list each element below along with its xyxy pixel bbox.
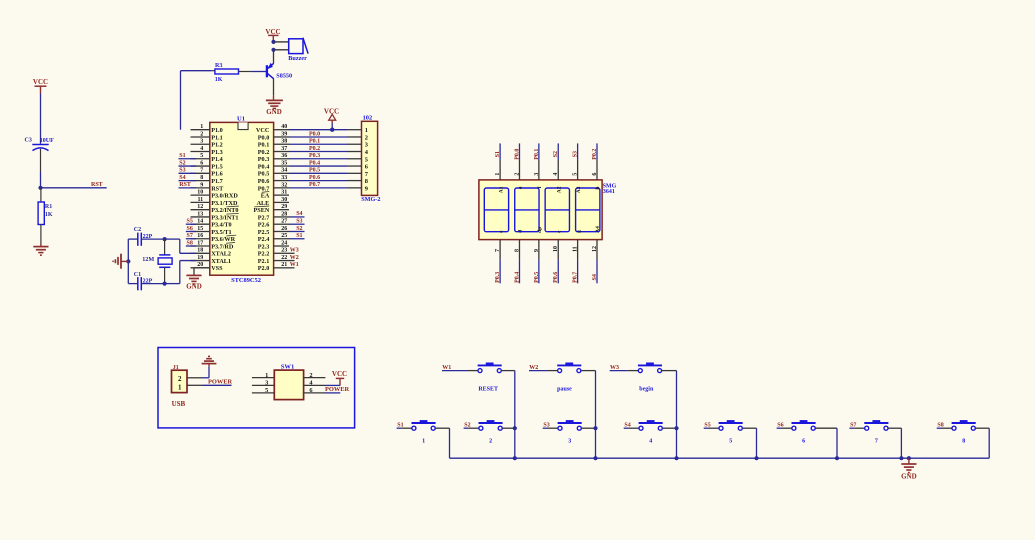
svg-text:2: 2 <box>178 375 182 383</box>
svg-text:3641: 3641 <box>603 189 615 195</box>
svg-text:37: 37 <box>281 146 287 152</box>
svg-text:1K: 1K <box>215 77 223 83</box>
svg-text:27: 27 <box>281 219 287 225</box>
svg-text:XTAL1: XTAL1 <box>211 258 231 265</box>
svg-text:102: 102 <box>363 115 373 122</box>
svg-text:RST: RST <box>211 185 224 192</box>
svg-text:a: a <box>518 186 524 189</box>
svg-text:W1: W1 <box>442 365 451 371</box>
svg-text:P2.1: P2.1 <box>258 258 270 265</box>
svg-text:S4: S4 <box>179 175 185 181</box>
svg-text:P0.1: P0.1 <box>534 149 540 160</box>
svg-text:C1: C1 <box>134 272 141 278</box>
svg-text:29: 29 <box>281 204 287 210</box>
svg-text:PSEN: PSEN <box>253 207 269 214</box>
svg-text:P0.4: P0.4 <box>258 163 270 170</box>
svg-text:34: 34 <box>281 168 287 174</box>
svg-text:SW1: SW1 <box>281 363 295 370</box>
svg-text:S1: S1 <box>397 423 403 429</box>
svg-text:6: 6 <box>592 173 598 176</box>
svg-text:S1: S1 <box>296 233 302 239</box>
svg-text:S7: S7 <box>187 233 193 239</box>
svg-text:S2: S2 <box>179 160 185 166</box>
svg-text:P2.7: P2.7 <box>258 214 270 221</box>
svg-text:SMG-2: SMG-2 <box>361 196 380 203</box>
svg-text:P0.6: P0.6 <box>309 175 320 181</box>
svg-text:P0.0: P0.0 <box>309 131 320 137</box>
svg-text:VCC: VCC <box>33 78 48 86</box>
svg-text:P0.1: P0.1 <box>309 139 320 145</box>
svg-text:P0.0: P0.0 <box>514 149 520 160</box>
svg-text:P0.5: P0.5 <box>534 272 540 283</box>
svg-text:VCC: VCC <box>324 107 339 115</box>
svg-text:ALE: ALE <box>257 200 270 207</box>
svg-text:8: 8 <box>200 175 203 181</box>
svg-text:1: 1 <box>200 124 203 130</box>
svg-text:P3.1/TXD: P3.1/TXD <box>211 200 238 207</box>
svg-text:VCC: VCC <box>332 370 347 378</box>
svg-text:U1: U1 <box>237 115 245 122</box>
svg-text:P0.1: P0.1 <box>258 142 270 149</box>
svg-text:38: 38 <box>281 139 287 145</box>
svg-text:16: 16 <box>197 233 203 239</box>
svg-text:P1.4: P1.4 <box>211 156 223 163</box>
svg-text:P0.6: P0.6 <box>258 178 270 185</box>
svg-text:9: 9 <box>365 185 368 192</box>
svg-text:P0.7: P0.7 <box>258 185 270 192</box>
svg-text:4: 4 <box>649 438 652 444</box>
svg-text:3: 3 <box>200 139 203 145</box>
svg-text:39: 39 <box>281 131 287 137</box>
svg-text:S4: S4 <box>296 211 302 217</box>
svg-text:22P: 22P <box>143 234 153 240</box>
svg-text:17: 17 <box>197 240 203 246</box>
svg-text:d: d <box>518 230 524 233</box>
svg-text:P1.2: P1.2 <box>211 142 223 149</box>
svg-text:P1.5: P1.5 <box>211 163 223 170</box>
svg-text:VSS: VSS <box>211 265 223 272</box>
svg-text:R1: R1 <box>45 204 52 210</box>
svg-text:1K: 1K <box>45 212 53 218</box>
svg-text:2: 2 <box>514 173 520 176</box>
svg-text:P0.4: P0.4 <box>514 272 520 283</box>
svg-text:S2: S2 <box>464 423 470 429</box>
svg-text:P2.5: P2.5 <box>258 229 270 236</box>
svg-text:11: 11 <box>198 197 204 203</box>
svg-text:10: 10 <box>197 190 203 196</box>
svg-text:5: 5 <box>365 156 368 163</box>
svg-text:32: 32 <box>281 182 287 188</box>
svg-text:7: 7 <box>875 438 878 444</box>
svg-text:S6: S6 <box>187 226 193 232</box>
svg-text:STC89C52: STC89C52 <box>231 277 261 284</box>
svg-text:dp: dp <box>537 227 543 233</box>
svg-text:1: 1 <box>422 438 425 444</box>
svg-text:P3.0/RXD: P3.0/RXD <box>211 193 238 200</box>
svg-text:POWER: POWER <box>208 378 233 385</box>
svg-text:S4: S4 <box>624 423 630 429</box>
svg-text:8: 8 <box>962 438 965 444</box>
svg-text:19: 19 <box>197 255 203 261</box>
svg-text:33: 33 <box>281 175 287 181</box>
svg-text:P0.3: P0.3 <box>309 153 320 159</box>
svg-text:S7: S7 <box>850 423 856 429</box>
svg-text:A3: A3 <box>576 186 582 193</box>
svg-text:EA: EA <box>261 193 270 200</box>
svg-text:VCC: VCC <box>256 127 269 134</box>
svg-text:28: 28 <box>281 211 287 217</box>
svg-text:S8550: S8550 <box>276 73 292 80</box>
svg-text:1: 1 <box>495 173 501 176</box>
svg-text:4: 4 <box>553 173 559 176</box>
svg-text:12: 12 <box>197 204 203 210</box>
svg-text:S1: S1 <box>495 151 501 157</box>
svg-text:P1.3: P1.3 <box>211 149 223 156</box>
svg-text:8: 8 <box>514 249 520 252</box>
svg-text:9: 9 <box>200 182 203 188</box>
svg-text:W3: W3 <box>610 365 619 371</box>
svg-text:3: 3 <box>365 142 368 149</box>
svg-text:2: 2 <box>365 134 368 141</box>
svg-text:P2.2: P2.2 <box>258 251 270 258</box>
svg-text:P2.6: P2.6 <box>258 222 270 229</box>
svg-text:1: 1 <box>365 127 368 134</box>
svg-text:2: 2 <box>200 131 203 137</box>
svg-text:13: 13 <box>197 211 203 217</box>
svg-text:R3: R3 <box>215 63 222 69</box>
svg-text:GND: GND <box>266 108 282 116</box>
svg-text:6: 6 <box>802 438 805 444</box>
svg-text:31: 31 <box>281 190 287 196</box>
svg-text:P0.2: P0.2 <box>309 146 320 152</box>
svg-text:P3.2/INT0: P3.2/INT0 <box>211 207 238 214</box>
svg-text:W3: W3 <box>290 248 299 254</box>
svg-text:4: 4 <box>200 146 203 152</box>
svg-text:RST: RST <box>91 182 103 188</box>
svg-text:S3: S3 <box>543 423 549 429</box>
svg-text:9: 9 <box>534 249 540 252</box>
svg-text:S8: S8 <box>937 423 943 429</box>
svg-text:GND: GND <box>186 282 202 290</box>
svg-text:5: 5 <box>265 387 268 394</box>
svg-text:P1.7: P1.7 <box>211 178 223 185</box>
svg-text:C2: C2 <box>134 227 141 233</box>
svg-text:P0.5: P0.5 <box>309 168 320 174</box>
svg-text:5: 5 <box>573 173 579 176</box>
svg-text:P3.4/T0: P3.4/T0 <box>211 222 231 229</box>
svg-text:P0.2: P0.2 <box>258 149 270 156</box>
svg-text:8: 8 <box>365 178 368 185</box>
svg-text:7: 7 <box>200 168 203 174</box>
svg-text:6: 6 <box>200 160 203 166</box>
svg-text:pause: pause <box>557 387 572 393</box>
svg-text:begin: begin <box>639 387 654 393</box>
svg-text:GND: GND <box>901 473 917 481</box>
svg-text:5: 5 <box>200 153 203 159</box>
svg-text:A2: A2 <box>556 186 562 193</box>
svg-text:P3.6/WR: P3.6/WR <box>211 236 235 243</box>
svg-text:3: 3 <box>265 380 268 387</box>
svg-text:P0.6: P0.6 <box>553 272 559 283</box>
svg-text:S5: S5 <box>704 423 710 429</box>
svg-text:22: 22 <box>281 255 287 261</box>
svg-text:P3.7/RD: P3.7/RD <box>211 243 234 250</box>
svg-text:XTAL2: XTAL2 <box>211 251 231 258</box>
svg-text:5: 5 <box>729 438 732 444</box>
svg-text:P1.0: P1.0 <box>211 127 223 134</box>
svg-text:26: 26 <box>281 226 287 232</box>
svg-text:W2: W2 <box>529 365 538 371</box>
svg-text:P0.2: P0.2 <box>592 149 598 160</box>
svg-text:3: 3 <box>568 438 571 444</box>
svg-text:S2: S2 <box>553 151 559 157</box>
svg-text:11: 11 <box>573 246 579 252</box>
svg-text:A1: A1 <box>498 186 504 193</box>
svg-text:21: 21 <box>281 262 287 268</box>
svg-text:15: 15 <box>197 226 203 232</box>
svg-text:C3: C3 <box>25 138 32 144</box>
svg-text:S6: S6 <box>777 423 783 429</box>
svg-text:P0.7: P0.7 <box>573 272 579 283</box>
svg-text:23: 23 <box>281 248 287 254</box>
svg-text:POWER: POWER <box>325 386 350 393</box>
svg-text:S3: S3 <box>296 219 302 225</box>
svg-text:W1: W1 <box>290 262 299 268</box>
svg-text:10UF: 10UF <box>40 138 54 144</box>
svg-text:S2: S2 <box>296 226 302 232</box>
svg-text:3: 3 <box>534 173 540 176</box>
svg-text:W2: W2 <box>290 255 299 261</box>
svg-text:P3.5/T1: P3.5/T1 <box>211 229 231 236</box>
svg-text:P0.3: P0.3 <box>258 156 270 163</box>
svg-text:35: 35 <box>281 160 287 166</box>
svg-text:RESET: RESET <box>478 387 498 393</box>
svg-text:S8: S8 <box>187 240 193 246</box>
svg-text:S4: S4 <box>592 274 598 280</box>
svg-text:12: 12 <box>592 246 598 252</box>
svg-text:g: g <box>576 230 582 233</box>
svg-text:P0.7: P0.7 <box>309 182 320 188</box>
svg-text:1: 1 <box>265 372 268 379</box>
svg-text:b: b <box>595 187 601 190</box>
svg-text:P0.3: P0.3 <box>495 272 501 283</box>
svg-text:10: 10 <box>553 246 559 252</box>
svg-text:S1: S1 <box>179 153 185 159</box>
svg-text:2: 2 <box>489 438 492 444</box>
svg-text:P0.4: P0.4 <box>309 160 320 166</box>
svg-text:USB: USB <box>172 400 186 408</box>
svg-text:14: 14 <box>197 219 203 225</box>
svg-text:Buzzer: Buzzer <box>288 55 307 62</box>
svg-text:25: 25 <box>281 233 287 239</box>
svg-text:f: f <box>537 186 543 188</box>
svg-text:P1.1: P1.1 <box>211 134 223 141</box>
svg-text:J1: J1 <box>173 365 179 371</box>
svg-text:22P: 22P <box>143 278 153 284</box>
svg-text:36: 36 <box>281 153 287 159</box>
svg-text:40: 40 <box>281 124 287 130</box>
svg-text:12M: 12M <box>142 256 154 263</box>
svg-text:P1.6: P1.6 <box>211 171 223 178</box>
svg-text:A4: A4 <box>595 226 601 233</box>
svg-text:S3: S3 <box>179 168 185 174</box>
svg-text:RST: RST <box>179 182 191 188</box>
svg-text:S5: S5 <box>187 219 193 225</box>
svg-text:P0.5: P0.5 <box>258 171 270 178</box>
svg-text:P0.0: P0.0 <box>258 134 270 141</box>
svg-text:P2.3: P2.3 <box>258 243 270 250</box>
svg-text:P2.0: P2.0 <box>258 265 270 272</box>
svg-text:30: 30 <box>281 197 287 203</box>
svg-text:P2.4: P2.4 <box>258 236 270 243</box>
svg-text:S3: S3 <box>573 151 579 157</box>
svg-text:7: 7 <box>495 249 501 252</box>
svg-text:P3.3/INT1: P3.3/INT1 <box>211 214 238 221</box>
svg-text:24: 24 <box>281 240 287 246</box>
svg-text:1: 1 <box>178 383 182 391</box>
svg-text:18: 18 <box>197 248 203 254</box>
